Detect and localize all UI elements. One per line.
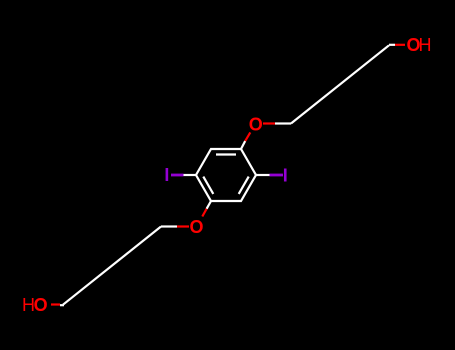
- svg-text:I: I: [283, 165, 288, 185]
- svg-text:I: I: [164, 165, 169, 185]
- svg-text:O: O: [189, 217, 203, 237]
- svg-text:O: O: [34, 295, 48, 315]
- svg-text:O: O: [249, 115, 263, 135]
- svg-text:H: H: [419, 35, 432, 55]
